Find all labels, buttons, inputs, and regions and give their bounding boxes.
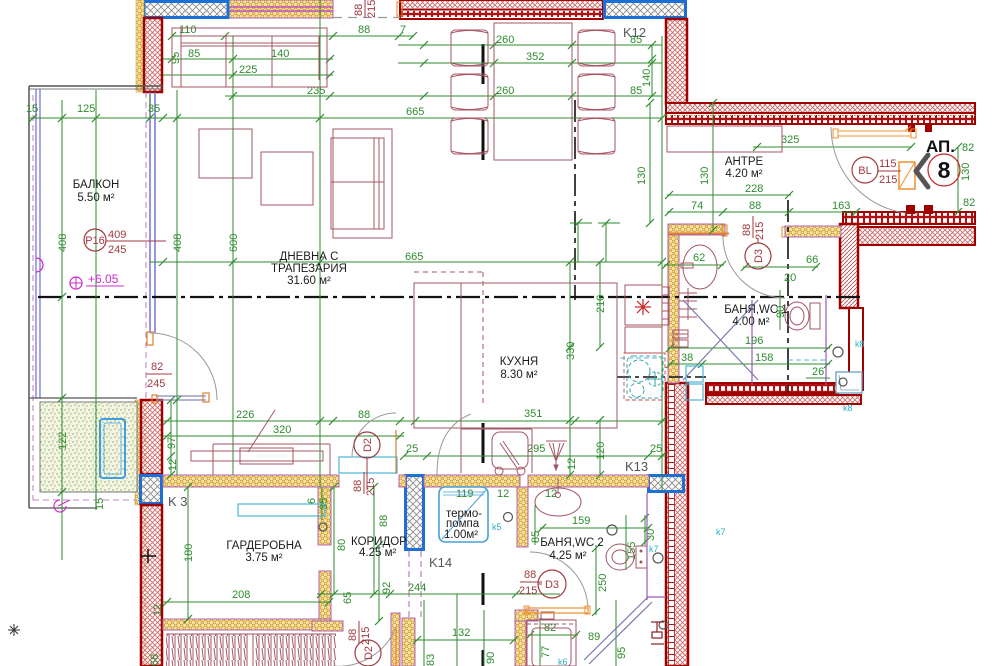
svg-text:250: 250 <box>597 574 609 592</box>
svg-text:665: 665 <box>405 251 423 263</box>
svg-text:65: 65 <box>342 592 354 604</box>
svg-text:120: 120 <box>595 442 607 460</box>
balcony door arc <box>150 333 217 400</box>
vertical x535 bath2 85 <box>534 505 536 545</box>
partition wardrobe east lower <box>319 571 331 629</box>
dim line sofa 85-140 <box>163 58 333 60</box>
vertical x600 kitchen 210 <box>599 262 601 347</box>
svg-text:130: 130 <box>636 167 648 185</box>
column K14 (blue) <box>406 476 424 550</box>
dim line 244 <box>317 593 560 595</box>
svg-text:110: 110 <box>179 24 197 36</box>
svg-text:4.20 м²: 4.20 м² <box>725 168 762 180</box>
vertical x188 wardrobe 180 <box>187 487 189 619</box>
svg-text:P16: P16 <box>85 235 105 247</box>
cyan shelf wardrobe <box>238 504 325 516</box>
partition wardrobe north <box>163 475 339 487</box>
D3 circle bath1 <box>741 216 771 269</box>
svg-text:88: 88 <box>749 200 761 212</box>
yellow strip left of top-left wall <box>136 0 144 92</box>
svg-text:97: 97 <box>166 437 178 449</box>
svg-text:83: 83 <box>425 654 437 666</box>
heat pump <box>439 487 488 542</box>
vertical x62 <box>61 100 63 560</box>
svg-text:88: 88 <box>353 4 365 16</box>
svg-text:35: 35 <box>148 103 160 115</box>
svg-text:215: 215 <box>360 627 372 645</box>
svg-text:180: 180 <box>183 544 195 562</box>
dim line 15/125/35/665 <box>29 117 662 119</box>
thin red wall below it <box>849 308 863 390</box>
dim line 159 <box>540 527 650 529</box>
dim line antre 228 <box>667 194 791 196</box>
svg-text:88: 88 <box>358 409 370 421</box>
svg-text:D2: D2 <box>362 438 374 452</box>
svg-text:12: 12 <box>167 459 179 471</box>
svg-text:82: 82 <box>963 197 975 209</box>
svg-text:85: 85 <box>188 48 200 60</box>
svg-text:132: 132 <box>452 627 470 639</box>
svg-text:25: 25 <box>650 443 662 455</box>
svg-text:295: 295 <box>527 443 545 455</box>
svg-text:k8: k8 <box>855 339 865 349</box>
vertical x424 corridor 83 <box>423 600 425 666</box>
column K12 (blue) <box>605 2 686 18</box>
svg-text:159: 159 <box>572 515 590 527</box>
vertical x600 kitchen 120 <box>599 420 601 475</box>
svg-text:226: 226 <box>236 409 254 421</box>
dim line antre 325 <box>753 146 912 148</box>
svg-text:210: 210 <box>595 295 607 313</box>
vertical x780 bath1 90 <box>779 290 781 330</box>
vertical x662 <box>661 36 663 492</box>
column K12a (blue, top-left) <box>144 2 228 18</box>
svg-text:K14: K14 <box>429 555 452 570</box>
svg-text:163: 163 <box>832 200 850 212</box>
svg-text:215: 215 <box>754 222 766 240</box>
hangers in wardrobe <box>166 634 336 666</box>
wall horizontal (antre north) <box>666 103 975 124</box>
shower WC2 diagonals <box>584 493 666 664</box>
svg-text:88: 88 <box>352 480 364 492</box>
svg-text:325: 325 <box>781 134 799 146</box>
svg-text:ГАРДЕРОБНА: ГАРДЕРОБНА <box>226 540 302 552</box>
dim line 320 <box>163 435 404 437</box>
svg-text:140: 140 <box>641 69 653 87</box>
svg-text:90: 90 <box>485 652 497 664</box>
svg-text:95: 95 <box>616 647 628 659</box>
dim line 25/295/25 <box>404 455 666 457</box>
window return segment at y399 <box>147 332 209 403</box>
svg-text:92: 92 <box>381 582 393 594</box>
vertical x177 <box>176 90 178 475</box>
wall main vertical right of kitchen (red) <box>666 383 688 666</box>
toilet WC2 <box>606 544 647 570</box>
wall red top (kitchen north) <box>400 0 603 19</box>
svg-text:25: 25 <box>406 443 418 455</box>
thick dashed section x483 segments <box>482 44 485 666</box>
svg-text:КУХНЯ: КУХНЯ <box>500 356 538 368</box>
partition bath WC2 west upper <box>517 487 528 547</box>
partition bath WC1 west (yellow vertical) <box>668 224 679 383</box>
sink WC2 (oval) <box>535 478 581 516</box>
entry arrow icon <box>916 155 928 187</box>
svg-text:158: 158 <box>755 352 773 364</box>
svg-text:88: 88 <box>741 224 753 236</box>
vertical x233 <box>232 36 234 475</box>
purple dashed lines corridor <box>409 551 421 621</box>
svg-text:4.25 м²: 4.25 м² <box>359 547 396 559</box>
vertical x374 corridor 88 <box>373 487 375 594</box>
partition bath WC2 north <box>528 475 649 487</box>
D2 circle bottom <box>347 621 381 666</box>
svg-text:4.25 м²: 4.25 м² <box>549 550 586 562</box>
wall left (red) lower <box>140 505 162 666</box>
svg-text:89: 89 <box>588 631 600 643</box>
wall top-left vertical (red, beside balcony) <box>144 18 162 92</box>
dash-dot segment y377 kitchen <box>617 376 706 378</box>
svg-text:ТРАПЕЗАРИЯ: ТРАПЕЗАРИЯ <box>271 263 347 275</box>
svg-text:125: 125 <box>77 103 95 115</box>
balcony window (blue glazing) <box>146 92 155 400</box>
svg-text:АП.: АП. <box>926 137 955 156</box>
svg-text:82: 82 <box>151 361 163 373</box>
svg-text:26: 26 <box>812 366 824 378</box>
svg-text:600: 600 <box>228 234 240 252</box>
D2 circle wardrobe door <box>352 432 380 496</box>
partition bath WC1 north-right <box>785 226 841 237</box>
vertical x540 bath2 77 <box>539 618 541 666</box>
vertical section line x788 <box>787 200 789 392</box>
vertical x322 corridor 35 <box>321 487 323 520</box>
svg-text:215: 215 <box>366 0 378 18</box>
armchair <box>199 129 252 178</box>
svg-text:31.60 м²: 31.60 м² <box>287 275 331 287</box>
partition corridor north (right of K14) <box>424 475 520 487</box>
dim line antre 74/88/163 <box>667 211 858 213</box>
svg-text:408: 408 <box>172 234 184 252</box>
loveseat <box>331 129 392 238</box>
svg-text:352: 352 <box>526 51 544 63</box>
svg-text:5.50 м²: 5.50 м² <box>77 192 114 204</box>
svg-text:4.00 м²: 4.00 м² <box>732 316 769 328</box>
88/215 rotated top door <box>353 0 378 18</box>
svg-text:8.30 м²: 8.30 м² <box>500 369 537 381</box>
dim line bath1 38/158 <box>668 363 830 365</box>
svg-text:665: 665 <box>406 106 424 118</box>
top wall door dashes <box>333 17 400 19</box>
bath2 door arc + orange leaf <box>524 552 590 614</box>
dining table <box>494 23 572 160</box>
sprinkler symbol <box>546 441 567 470</box>
svg-text:12: 12 <box>152 604 164 616</box>
svg-text:ДНЕВНА С: ДНЕВНА С <box>280 251 339 263</box>
svg-text:88: 88 <box>358 24 370 36</box>
P16 circle + 409/245 <box>84 229 166 256</box>
svg-text:1.00м²: 1.00м² <box>444 529 478 541</box>
kitchen sink/dishwasher unit <box>625 285 669 325</box>
orange shelf antre <box>833 126 916 138</box>
partition wardrobe south <box>163 619 343 631</box>
+6.05 mark <box>70 272 124 289</box>
sofa living <box>172 28 327 87</box>
yellow strip left of K3 wall <box>135 400 141 505</box>
wall left (red, south part) upper <box>141 400 162 474</box>
svg-text:62: 62 <box>693 252 705 264</box>
svg-text:88: 88 <box>524 569 536 581</box>
svg-text:130: 130 <box>960 163 972 181</box>
svg-text:320: 320 <box>273 424 291 436</box>
shower WC1 diagonals <box>683 300 758 400</box>
svg-text:228: 228 <box>745 183 763 195</box>
dim line bath1 26 <box>806 377 830 379</box>
vertical x570 kitchen 330 <box>569 262 571 475</box>
svg-text:245: 245 <box>147 378 165 390</box>
wardrobe door leaf + arc <box>339 413 397 474</box>
faucet symbol bottom right wall <box>651 622 664 644</box>
svg-text:38: 38 <box>681 352 693 364</box>
vacuum cleaner <box>492 432 528 475</box>
TV lowboard with leader <box>191 410 330 475</box>
teal dashed line kitchen top of stove <box>620 357 666 359</box>
door jamb marks top right <box>906 124 933 214</box>
svg-text:260: 260 <box>496 34 514 46</box>
svg-text:409: 409 <box>108 229 126 241</box>
corridor south door jambs <box>391 613 415 666</box>
vertical x626 bath2 155 <box>625 515 627 570</box>
svg-text:115: 115 <box>879 158 897 170</box>
vertical x171 wardrobe 97/12 <box>170 400 172 475</box>
D3 circle bath2 <box>519 569 566 598</box>
svg-text:130: 130 <box>699 167 711 185</box>
vertical x320 <box>319 0 321 487</box>
cabinet marks bath1 wall <box>673 330 688 347</box>
svg-text:K 3: K 3 <box>168 494 188 509</box>
svg-text:12: 12 <box>566 458 578 470</box>
svg-text:225: 225 <box>239 64 257 76</box>
top door jamb cap <box>397 2 402 16</box>
svg-text:3.75 м²: 3.75 м² <box>245 552 282 564</box>
vertical x650 antre 130 <box>649 103 651 223</box>
svg-text:82: 82 <box>962 142 974 154</box>
svg-text:D2: D2 <box>363 646 375 660</box>
vertical x652 dining 140 <box>651 45 653 96</box>
svg-text:D3: D3 <box>753 249 765 263</box>
svg-text:АНТРЕ: АНТРЕ <box>725 156 764 168</box>
vertical x96 <box>95 90 97 510</box>
bath1 door arc <box>723 236 785 298</box>
svg-text:208: 208 <box>232 589 250 601</box>
small circles fixtures <box>319 347 847 629</box>
AP 8 apartment number <box>926 137 960 186</box>
towel rail WC1 <box>679 288 697 320</box>
svg-text:260: 260 <box>496 85 514 97</box>
dining chairs left <box>451 30 488 154</box>
svg-text:20: 20 <box>784 272 796 284</box>
svg-text:k5: k5 <box>492 522 502 532</box>
dim line bath1 62 <box>664 264 724 266</box>
dim line 208 <box>163 601 331 603</box>
svg-text:БАЛКОН: БАЛКОН <box>73 179 120 191</box>
horizontal centerline <box>38 296 860 298</box>
dim line bath1 196 <box>668 347 830 349</box>
dim line dining 260/85 upper <box>398 44 662 46</box>
svg-text:66: 66 <box>806 254 818 266</box>
dim line bath1 66 <box>743 266 818 268</box>
vertical x713 antre 130 <box>712 103 714 232</box>
svg-text:6: 6 <box>306 498 318 504</box>
bath WC2 west lower wall <box>515 610 538 666</box>
vertical x596 bath2 250 <box>595 545 597 615</box>
svg-text:330: 330 <box>565 342 577 360</box>
entry door arc + leaf <box>831 127 918 214</box>
svg-text:215: 215 <box>519 585 537 597</box>
svg-text:245: 245 <box>108 244 126 256</box>
svg-text:K13: K13 <box>625 459 648 474</box>
dim line 235/260/85 <box>225 95 662 97</box>
dim line 132 <box>414 639 516 641</box>
svg-text:74: 74 <box>691 200 703 212</box>
black asterisk left bottom <box>8 624 20 636</box>
dim line 226/88/351 <box>163 420 666 422</box>
wall bath WC1 south (horizontal) <box>706 383 861 404</box>
svg-text:244: 244 <box>408 582 426 594</box>
svg-text:215: 215 <box>879 174 897 186</box>
vertical x334 corridor 80 <box>333 487 335 594</box>
red asterisk kitchen <box>635 299 651 315</box>
dim line dining 352 <box>398 62 662 64</box>
kitchen small unit <box>625 327 662 353</box>
svg-text:+6.05: +6.05 <box>88 272 119 286</box>
svg-text:122: 122 <box>57 432 69 450</box>
magenta semicircle on left glazing <box>36 258 43 272</box>
dim line 82 washing <box>528 634 578 636</box>
svg-text:15: 15 <box>26 103 38 115</box>
vertical x484 corridor 90 <box>483 610 485 666</box>
svg-text:88: 88 <box>347 629 359 641</box>
toilet WC1 <box>785 302 820 330</box>
corridor/kitchen door arc <box>437 414 471 477</box>
cyan k-labels <box>492 339 865 666</box>
dining chairs right <box>578 30 615 154</box>
svg-text:K12: K12 <box>623 25 646 40</box>
extension lines near antre/kitchen <box>577 223 579 262</box>
vertical section line x575 <box>574 100 576 300</box>
wall right of antre (horizontal, brick+hatch) <box>843 212 975 245</box>
svg-text:7: 7 <box>400 24 406 36</box>
partition stub left of K14 <box>399 475 406 487</box>
partition bath WC1 north-left <box>668 224 786 237</box>
column K3 (blue) <box>141 476 162 504</box>
svg-text:k7: k7 <box>716 527 726 537</box>
svg-text:k8: k8 <box>843 403 853 413</box>
svg-text:119: 119 <box>456 488 474 500</box>
partition wardrobe east upper <box>318 487 331 545</box>
vertical x616 bath2 95 <box>615 600 617 666</box>
planter (stippled) <box>40 402 137 492</box>
wall top band left (yellow w/ magenta lines) <box>228 0 333 18</box>
svg-text:15: 15 <box>94 498 106 510</box>
svg-text:D3: D3 <box>545 579 559 591</box>
magenta mark at planter <box>54 500 70 512</box>
svg-text:351: 351 <box>524 408 542 420</box>
bathtub right <box>836 372 862 393</box>
dim line sofa 110/88/7 <box>172 35 414 37</box>
svg-text:80: 80 <box>336 539 348 551</box>
svg-text:12: 12 <box>497 488 509 500</box>
svg-text:140: 140 <box>271 48 289 60</box>
vertical x379 corridor 92 <box>378 545 380 621</box>
svg-text:68: 68 <box>149 654 161 666</box>
svg-text:БАНЯ,WC 1: БАНЯ,WC 1 <box>724 304 788 316</box>
dim line right 82/130/82 vertical <box>957 147 959 212</box>
purple shower line WC1 <box>752 295 826 385</box>
svg-text:88: 88 <box>378 515 390 527</box>
svg-text:BL: BL <box>858 165 871 177</box>
82/245 fraction <box>146 361 172 390</box>
balcony dashed boundary bottom <box>33 492 137 500</box>
svg-text:БАНЯ,WC 2: БАНЯ,WC 2 <box>540 537 604 549</box>
washing machine bath2 <box>527 612 576 666</box>
svg-text:196: 196 <box>745 335 763 347</box>
svg-text:408: 408 <box>57 234 69 252</box>
teal dashed line bath1 <box>788 359 828 361</box>
balcony outline <box>29 86 163 508</box>
kitchen stove <box>624 353 665 400</box>
dim line sofa 225 <box>163 74 333 76</box>
column K13 (blue) <box>649 476 684 492</box>
sink WC1 (oval) <box>681 245 717 289</box>
BL circle + 115/215 <box>852 157 901 186</box>
svg-text:77: 77 <box>540 646 552 658</box>
svg-text:8: 8 <box>938 157 951 183</box>
kitchen counter <box>414 272 617 473</box>
entry closet <box>667 126 782 152</box>
dim line 665 lower <box>150 261 662 263</box>
vertical x645 bath2 30 <box>644 515 646 545</box>
wall vertical below K12 <box>666 19 687 104</box>
coffee table <box>261 152 313 205</box>
corridor south door leaf + arc <box>333 627 396 666</box>
svg-text:k6: k6 <box>558 657 568 666</box>
wall vertical bath WC1 right <box>840 224 858 308</box>
